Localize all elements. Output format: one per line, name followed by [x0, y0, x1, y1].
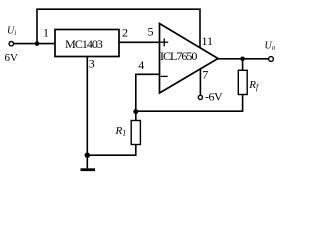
wire input to MC1403 pin 1 — [14, 43, 56, 45]
wire top rail from input node to pin 11 — [37, 9, 200, 48]
wire output node down to Rf — [242, 59, 244, 71]
terminal Ui input circle — [9, 42, 13, 46]
op-amp U2 ICL7650 triangle — [160, 24, 219, 94]
wire MC1403 pin 2 to op-amp + input — [119, 41, 160, 43]
op-amp plus input sign — [160, 38, 168, 46]
svg-text:5: 5 — [148, 25, 154, 39]
svg-text:6V: 6V — [5, 52, 19, 64]
IC U1 MC1403 box — [55, 30, 119, 57]
node junction feedback — [133, 109, 138, 114]
wire op-amp pin 7 to -6V terminal — [199, 69, 201, 95]
node junction at output — [240, 57, 245, 62]
wire op-amp output to Uo terminal — [218, 58, 268, 60]
wire R1 bottom to ground node — [87, 145, 136, 156]
svg-text:11: 11 — [202, 34, 214, 48]
svg-text:ICL7650: ICL7650 — [160, 49, 197, 63]
resistor R1 — [131, 121, 140, 145]
op-amp minus input sign — [161, 75, 168, 77]
wire feedback node up to op-amp - input — [136, 74, 160, 111]
wire MC1403 pin 3 down to ground node — [86, 57, 88, 169]
svg-text:4: 4 — [138, 58, 144, 72]
node junction at pin 1 — [35, 41, 40, 46]
terminal -6V circle — [198, 95, 202, 99]
svg-text:-6V: -6V — [205, 90, 223, 104]
terminal Uo output circle — [269, 57, 274, 62]
wire feedback node down to R1 — [135, 111, 137, 120]
svg-text:MC1403: MC1403 — [65, 37, 103, 51]
node junction at ground — [85, 153, 90, 158]
svg-text:2: 2 — [122, 26, 128, 40]
svg-text:1: 1 — [43, 26, 49, 40]
svg-text:3: 3 — [89, 56, 95, 70]
ground symbol bar — [81, 168, 96, 171]
resistor Rf — [238, 70, 247, 94]
svg-text:7: 7 — [202, 68, 208, 82]
wire Rf bottom to feedback node — [136, 95, 243, 112]
